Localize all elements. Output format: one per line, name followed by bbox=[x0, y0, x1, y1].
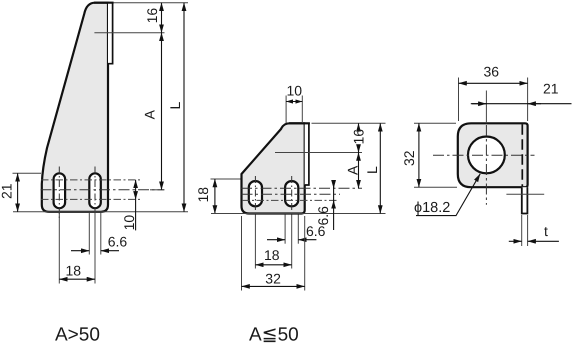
fig1 body outline bbox=[42, 3, 108, 212]
fig1 dimension L bbox=[183, 3, 185, 212]
svg-text:10: 10 bbox=[287, 83, 303, 99]
fig2 dimension 16 (text on line) bbox=[358, 123, 360, 129]
fig2 dimension 6.6 bottom arrows bbox=[267, 239, 285, 241]
fig1 right slot bbox=[89, 173, 101, 208]
fig1 10-dim tail bbox=[135, 199, 137, 230]
fig1 slot vertical centerline right bbox=[94, 167, 96, 219]
svg-text:21: 21 bbox=[543, 81, 559, 97]
fig1 6.6 extension lines bbox=[88, 213, 90, 255]
fig1 left slot bbox=[54, 173, 66, 208]
svg-text:L: L bbox=[167, 102, 183, 110]
fig2 lower hole line bbox=[242, 199, 338, 201]
fig1 top edge over tab bbox=[94, 2, 114, 4]
fig2 top edge extension bbox=[312, 122, 386, 124]
fig1 dimension 21 bbox=[17, 173, 19, 212]
fig2 upper hole centerline (dash-dot) bbox=[241, 187, 362, 189]
fig3 hole circle bbox=[468, 137, 505, 174]
svg-text:A: A bbox=[142, 109, 158, 119]
fig3 dimension 32 bbox=[418, 123, 420, 187]
fig2 dimension 18 left bbox=[214, 179, 216, 214]
fig2 dimension A bbox=[358, 153, 360, 189]
fig1 dimension A bbox=[161, 33, 163, 190]
fig1 18 extension lines bbox=[58, 213, 60, 284]
fig1 hidden flange line (16 ref) bbox=[94, 32, 164, 34]
fig3 tab hole tick bbox=[506, 193, 544, 195]
fig2 32 extension lines bbox=[241, 216, 243, 291]
fig3 t extension lines bbox=[521, 215, 523, 246]
fig2 dimension 10 bbox=[286, 101, 302, 103]
fig2 left slot bbox=[249, 181, 262, 206]
fig1 lower hole line bbox=[41, 198, 141, 200]
svg-text:ϕ18.2: ϕ18.2 bbox=[414, 200, 450, 216]
svg-text:A≦50: A≦50 bbox=[249, 325, 299, 345]
fig2 slot vertical centerline left bbox=[254, 176, 256, 212]
svg-text:16: 16 bbox=[144, 8, 160, 24]
fig3 plate outline bbox=[458, 123, 528, 187]
svg-text:18: 18 bbox=[66, 263, 82, 279]
fig3 phi 18.2 leader bbox=[416, 174, 480, 216]
svg-text:16: 16 bbox=[350, 129, 366, 145]
fig3 36 extension lines bbox=[458, 78, 460, 122]
fig2 18 bottom extension lines bbox=[254, 215, 256, 269]
fig2 top edge over tab bbox=[289, 122, 310, 124]
fig1 dimension 18 bbox=[59, 278, 95, 280]
fig2 hidden flange line (16 ref) bbox=[275, 152, 362, 154]
svg-text:18: 18 bbox=[264, 247, 280, 263]
fig3 bent tab below plate bbox=[522, 187, 528, 213]
fig2 vertical 6.6 arrows bbox=[333, 180, 335, 188]
fig1 dimension 6.6 arrows bbox=[71, 250, 89, 252]
fig2 body outline bbox=[242, 123, 305, 213]
svg-text:A>50: A>50 bbox=[55, 325, 100, 345]
fig1 horizontal centerline (slot centers, dash-dot) bbox=[41, 189, 165, 191]
fig3 dimension 21 line bbox=[471, 103, 572, 105]
fig2 dimension 18 bottom bbox=[255, 264, 291, 266]
fig2 dimension 32 bbox=[242, 285, 305, 287]
fig2 slot vertical centerline right bbox=[291, 176, 293, 212]
svg-text:32: 32 bbox=[401, 150, 417, 166]
fig1 bent tab (edge view, white strip) bbox=[108, 3, 113, 64]
svg-text:L: L bbox=[364, 166, 380, 174]
svg-text:21: 21 bbox=[0, 183, 15, 199]
fig3 dimension 36 bbox=[459, 82, 528, 84]
fig1 dimension 10 bbox=[135, 180, 137, 200]
svg-text:6.6: 6.6 bbox=[108, 234, 128, 250]
fig2 vertical 6.6 dim line bbox=[333, 181, 335, 230]
fig2 bent tab (edge view, white strip) bbox=[305, 123, 309, 185]
fig2 bottom edge extension bbox=[211, 213, 386, 215]
svg-text:A: A bbox=[345, 165, 361, 175]
svg-text:10: 10 bbox=[121, 215, 137, 231]
fig3 hole horizontal centerline bbox=[433, 154, 535, 156]
fig2 10-dim extension lines bbox=[285, 96, 287, 124]
svg-text:6.6: 6.6 bbox=[306, 223, 326, 239]
fig2 right slot bbox=[285, 181, 298, 206]
fig3 hole vertical centerline bbox=[485, 91, 487, 124]
fig2 6.6 bottom extension lines bbox=[284, 215, 286, 244]
fig1 upper hole line bbox=[41, 179, 140, 181]
fig3 dimension t arrows bbox=[509, 240, 522, 242]
fig1 dimension 16 bbox=[161, 3, 163, 33]
svg-text:36: 36 bbox=[484, 64, 500, 80]
fig2 slot center line bbox=[242, 193, 341, 195]
fig1 slot vertical centerline left bbox=[58, 167, 60, 219]
fig2 dimension L bbox=[379, 123, 381, 213]
fig3 bend line (dashed) bbox=[521, 124, 523, 186]
fig3 32 extension lines bbox=[414, 122, 456, 124]
svg-text:32: 32 bbox=[265, 271, 281, 287]
svg-text:t: t bbox=[544, 223, 548, 239]
fig1 top edge extension bbox=[114, 2, 189, 4]
fig1 21-dim top extension bbox=[13, 172, 42, 174]
fig1 bottom edge extension bbox=[13, 211, 188, 213]
fig1 A-dim landing segment bbox=[150, 189, 165, 191]
fig3 21 arrows bbox=[472, 103, 486, 105]
svg-text:18: 18 bbox=[195, 187, 211, 203]
fig2 18-dim top extension bbox=[211, 178, 242, 180]
